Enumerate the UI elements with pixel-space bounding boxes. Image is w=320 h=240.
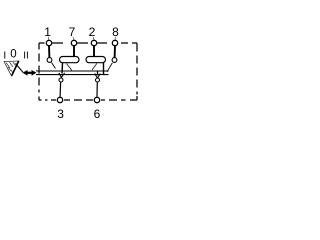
terminal 7 leader wire <box>73 37 74 40</box>
lever to rod link wire <box>16 64 24 73</box>
wire to terminal 3 <box>59 82 62 97</box>
alternate position tick pole 1 <box>52 63 56 69</box>
movable bridge contact pole 2 <box>86 57 106 63</box>
svg-text:II: II <box>23 51 29 62</box>
wire from terminal 7 <box>73 46 75 57</box>
arrowhead pole 1 <box>59 73 65 78</box>
svg-text:I: I <box>3 51 6 62</box>
svg-text:0: 0 <box>10 48 16 60</box>
alternate tilt tick pole 2 <box>92 64 97 71</box>
double-headed motion arrow <box>23 70 37 76</box>
fixed contact 1 circle <box>47 58 52 63</box>
terminal 7 circle <box>71 40 76 45</box>
pivot contact circle pole 2 <box>96 78 100 82</box>
actuating stem pole 2 <box>97 71 99 75</box>
svg-text:6: 6 <box>94 107 101 121</box>
enclosure dashed box left edge <box>38 43 40 100</box>
enclosure dashed box top edge <box>39 42 137 44</box>
pivot post pole 1 <box>61 63 64 74</box>
enclosure dashed box right edge <box>136 43 138 100</box>
wire from terminal 2 <box>93 46 95 57</box>
terminal 2 circle <box>91 40 96 45</box>
terminal 3 circle <box>57 97 62 102</box>
svg-text:7: 7 <box>69 25 76 39</box>
svg-text:2: 2 <box>89 25 96 39</box>
svg-text:3: 3 <box>57 107 64 121</box>
fixed contact 8 circle <box>112 58 117 63</box>
terminal 1 circle <box>46 40 51 45</box>
enclosure dashed box bottom edge <box>39 99 137 101</box>
pivot post pole 2 <box>103 63 105 75</box>
movable bridge contact pole 1 <box>60 57 80 63</box>
wire from terminal 8 <box>114 46 116 58</box>
alternate position tick pole 2 <box>107 63 112 72</box>
arrowhead pole 2 <box>95 74 101 78</box>
pivot contact circle pole 1 <box>59 78 63 82</box>
wire to terminal 6 <box>96 82 98 97</box>
terminal 8 leader wire <box>114 37 116 40</box>
terminal 6 circle <box>94 97 99 102</box>
terminal 1 leader wire <box>47 37 50 40</box>
svg-text:8: 8 <box>112 25 119 39</box>
terminal 8 circle <box>112 40 117 45</box>
svg-text:1: 1 <box>44 25 51 39</box>
wire from terminal 1 <box>48 46 50 58</box>
terminal 2 leader wire <box>92 37 95 40</box>
mechanical linkage rod (double line) <box>36 71 109 75</box>
alternate tilt tick pole 1 <box>67 64 72 71</box>
actuator lever (hatched triangle) <box>4 61 19 76</box>
position labels I 0 II <box>3 48 28 61</box>
